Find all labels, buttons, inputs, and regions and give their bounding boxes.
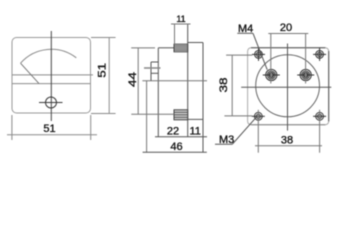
svg-text:20: 20 [280,22,292,34]
dimension 38 left: top extension line [226,54,252,56]
dimension 20: dimension line [268,33,308,35]
front view screw crosshair horizontal [39,102,63,104]
label M4 underline [237,32,253,34]
svg-text:11: 11 [176,14,185,24]
rear view square top edge (darker) [251,47,325,49]
svg-text:51: 51 [43,123,55,135]
dimension 38 left: dimension line [231,55,233,116]
side view body right section outline [188,43,203,153]
front view needle [21,63,40,83]
side view upper terminal stud M4 [174,44,188,52]
svg-text:38: 38 [218,78,230,93]
rear view square right edge (darker) [328,51,330,121]
dimension 20 / terminal centerline right [305,34,307,84]
side view front mounting stud ladder [151,62,158,81]
side view inner vertical line [187,24,189,137]
rear view right terminal [297,69,314,80]
side view lower stud centerline / 44 bottom extension [131,113,174,115]
svg-text:46: 46 [170,141,182,153]
dimension 46 left extension line [146,81,148,153]
svg-text:22: 22 [167,126,179,138]
dimension 38 bottom: dimension line [255,145,322,147]
svg-text:51: 51 [97,63,109,78]
side view mounting washer line [144,67,161,69]
dimension 11 top: left extension line [174,24,176,44]
corner hole bottom-left [252,112,265,120]
leader line M4 [253,33,267,69]
side view body left section outline [158,48,174,137]
rear view vertical centerline [287,44,289,131]
svg-text:11: 11 [189,126,200,138]
dimension 51 right: extension lines [91,38,116,114]
rear view horizontal centerline [241,86,331,88]
rear view square bottom edge [251,124,325,126]
side view horizontal centerline [142,80,207,82]
svg-text:44: 44 [127,72,139,87]
leader line M3 [233,117,257,144]
rear view large circle [256,55,320,117]
dimension 38 bottom: extension lines [258,110,319,153]
front view vertical centerline [50,31,52,121]
corner hole bottom-right [313,112,326,120]
front view dial window lines [12,75,93,84]
corner hole top-right [313,48,326,61]
dimension 20 / terminal centerline left [270,34,272,84]
dimension 22 and 11: dimension line [155,136,207,138]
svg-text:38: 38 [281,134,293,146]
rear view left terminal M4 [263,69,280,80]
dimension 38 left: bottom extension line [224,115,252,117]
dimension 46: dimension line [143,151,207,153]
dimension 44: dimension line [137,48,139,114]
front view zero-adjust screw circle [46,97,57,108]
label M3 underline [215,143,233,145]
front view bezel outline [12,38,91,114]
side view lower terminal stud [174,110,188,120]
rear view square outline [248,48,329,125]
dimension 44: top extension line [131,47,155,49]
dimension 51 right: dimension line [108,38,110,114]
dimension 51 bottom: dimension line [7,134,97,136]
dimension 11 top: dimension line [171,23,191,25]
corner hole top-left M3 [252,48,265,61]
front view scale arc [21,49,77,63]
dimension 51 bottom: extension lines [12,115,91,140]
